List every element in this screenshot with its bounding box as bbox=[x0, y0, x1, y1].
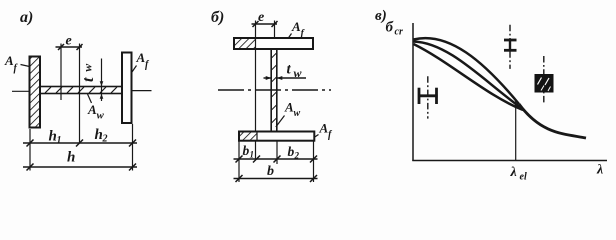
top flange (left part hatched) bbox=[234, 38, 313, 49]
merged curve tail bbox=[519, 104, 586, 138]
svg-text:λ: λ bbox=[596, 163, 603, 178]
buckling curve 3 (bottom) bbox=[414, 44, 524, 110]
extension line x=61 bbox=[60, 44, 62, 101]
web of b (two lines with sparse hatch) bbox=[271, 49, 277, 132]
svg-text:A: A bbox=[284, 100, 294, 115]
centerline of b bbox=[218, 89, 331, 91]
label a) bbox=[20, 9, 33, 26]
svg-text:b: b bbox=[243, 143, 250, 158]
svg-text:el: el bbox=[520, 172, 527, 183]
labels b1, b2 bbox=[243, 143, 300, 161]
right flange bbox=[122, 53, 132, 124]
extension verticals for h dims bbox=[30, 124, 133, 171]
svg-text:t: t bbox=[80, 77, 97, 82]
lambda_el vertical line bbox=[515, 100, 517, 161]
extension line x=255.5 (e left / b1-b2 divider) bbox=[255, 21, 257, 161]
label A_w of b with leader bbox=[276, 100, 301, 128]
svg-text:б): б) bbox=[211, 9, 224, 26]
svg-text:1: 1 bbox=[250, 150, 255, 160]
label v) bbox=[375, 8, 387, 24]
label b) bbox=[211, 9, 224, 26]
label A_f bottom with leader bbox=[314, 121, 333, 141]
svg-text:A: A bbox=[4, 53, 14, 68]
svg-text:b: b bbox=[288, 144, 295, 159]
symbol 1: I-section (weak axis) with dash-dot axis bbox=[418, 76, 438, 118]
centerline (horizontal axis of section a) bbox=[12, 90, 152, 93]
symbol 2: I-section (strong axis) with dash-dot axis bbox=[504, 25, 517, 69]
svg-text:e: e bbox=[66, 34, 72, 49]
svg-text:e: e bbox=[258, 10, 264, 25]
label A_f right with leader bbox=[131, 50, 150, 73]
label A_w with leader bbox=[87, 94, 105, 122]
label h bbox=[67, 150, 75, 166]
svg-text:w: w bbox=[294, 108, 301, 119]
web A_w (hatched bar) bbox=[40, 87, 122, 94]
web axis extension bbox=[274, 21, 276, 50]
dimension t_w of b bbox=[264, 62, 307, 81]
bottom flange (left part hatched) bbox=[239, 132, 314, 141]
svg-text:A: A bbox=[291, 19, 301, 34]
buckling curve 1 (top) bbox=[414, 38, 520, 104]
x-axis label lambda bbox=[596, 163, 603, 178]
svg-text:A: A bbox=[319, 121, 329, 136]
dimension e (top of a) bbox=[56, 34, 83, 51]
label A_f top with leader bbox=[288, 19, 306, 40]
extension verticals below bottom flange bbox=[239, 141, 314, 182]
buckling curve 2 (middle) bbox=[414, 42, 521, 108]
extension line x=79.5 (h1/h2 divider) bbox=[79, 44, 81, 144]
symbol 3: solid square section with dash-dot axis bbox=[535, 56, 554, 103]
svg-text:w: w bbox=[294, 66, 303, 80]
dimension line h bbox=[23, 164, 137, 171]
label A_f left with leader bbox=[4, 53, 30, 74]
label lambda_el bbox=[510, 165, 527, 183]
svg-text:w: w bbox=[80, 63, 94, 72]
svg-text:A: A bbox=[136, 50, 146, 65]
svg-text:λ: λ bbox=[510, 165, 517, 180]
labels h1, h2 bbox=[49, 127, 108, 146]
svg-text:A: A bbox=[87, 102, 97, 117]
dimension line b bbox=[234, 175, 318, 182]
dimension e (top of b) bbox=[252, 10, 278, 27]
x-axis bbox=[412, 160, 607, 162]
dimension line h1/h2 bbox=[23, 140, 137, 147]
svg-text:w: w bbox=[97, 110, 105, 122]
svg-text:cr: cr bbox=[395, 27, 403, 38]
svg-text:а): а) bbox=[20, 9, 33, 26]
dimension t_w (web thickness) with rotated label bbox=[80, 59, 103, 102]
y-axis bbox=[412, 23, 414, 161]
svg-text:1: 1 bbox=[57, 135, 62, 146]
svg-text:б: б bbox=[386, 20, 394, 36]
left flange A_f (hatched) bbox=[30, 57, 41, 128]
svg-text:b: b bbox=[267, 164, 274, 179]
dimension line b1/b2 bbox=[234, 156, 318, 163]
axis label sigma_cr bbox=[386, 20, 403, 38]
label b bbox=[267, 164, 274, 179]
svg-text:h: h bbox=[67, 150, 75, 166]
